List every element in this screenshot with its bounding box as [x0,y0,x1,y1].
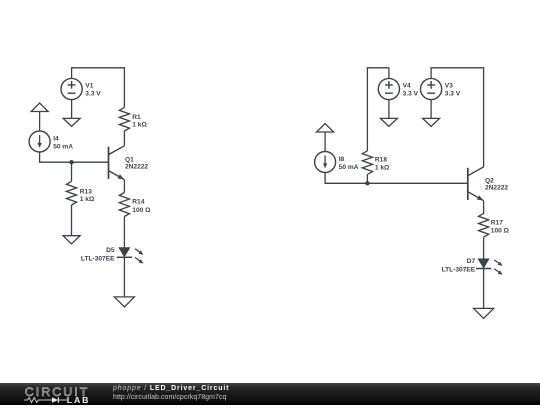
resistor R18 [362,151,372,175]
wire [366,174,368,183]
svg-text:Q1: Q1 [125,156,134,163]
node junction [69,160,73,164]
wire [71,162,73,181]
svg-text:R13: R13 [80,188,92,195]
transistor Q1 [108,147,110,179]
svg-text:LTL-307EE: LTL-307EE [81,255,115,262]
svg-text:R17: R17 [491,219,503,226]
svg-text:V4: V4 [403,83,411,90]
ground [114,297,134,307]
svg-text:3.3 V: 3.3 V [445,90,461,97]
ground [380,118,397,126]
svg-text:R1: R1 [132,114,141,121]
wire [483,201,485,214]
voltage source V4 [378,78,399,99]
svg-text:Q2: Q2 [485,178,494,185]
wire [123,131,125,146]
wire [324,132,326,152]
footer url [113,394,226,401]
svg-text:V3: V3 [445,83,453,90]
voltage source V1 [61,78,82,99]
wire [123,257,125,297]
wire [123,217,125,248]
svg-text:LTL-307EE: LTL-307EE [442,267,476,274]
svg-text:3.3 V: 3.3 V [85,90,101,97]
wire [483,237,485,259]
wire [388,100,390,119]
footer title [113,385,229,392]
ground (flipped) [31,103,48,112]
node junction [365,181,369,185]
CircuitLab logo [0,383,110,405]
svg-text:D7: D7 [467,258,476,265]
footer bar [0,383,540,405]
ground [474,308,494,318]
svg-text:I4: I4 [53,135,59,142]
LED D5 [119,248,129,257]
resistor R13 [66,181,76,205]
svg-text:I8: I8 [339,156,345,163]
svg-text:3.3 V: 3.3 V [403,90,419,97]
svg-text:2N2222: 2N2222 [485,185,508,192]
svg-text:1 kΩ: 1 kΩ [80,196,95,203]
svg-text:LAB: LAB [67,395,91,405]
ground [423,118,440,126]
wire [123,180,125,193]
svg-text:V1: V1 [85,83,93,90]
resistor R14 [119,193,129,217]
resistor R1 [119,107,129,131]
wire [71,100,73,119]
svg-text:D5: D5 [106,247,115,254]
svg-text:50 mA: 50 mA [339,164,359,171]
svg-text:2N2222: 2N2222 [125,164,148,171]
svg-text:100 Ω: 100 Ω [491,228,510,235]
ground [63,236,80,244]
svg-text:100 Ω: 100 Ω [132,207,151,214]
wire [430,100,432,119]
ground [63,118,80,126]
wire [483,269,485,309]
svg-text:R18: R18 [375,157,387,164]
wire [367,68,389,151]
LED D7 [478,259,488,268]
svg-text:1 kΩ: 1 kΩ [132,122,147,129]
transistor Q2 [467,168,469,200]
wire [39,112,41,132]
wire [325,173,468,184]
resistor R17 [479,213,489,237]
current source I8 [315,152,336,173]
svg-text:1 kΩ: 1 kΩ [375,164,390,171]
wire [40,152,109,162]
wire [71,205,73,236]
current source I4 [29,131,50,152]
wire [72,68,125,108]
ground (flipped) [317,124,334,133]
voltage source V3 [421,78,442,99]
wire [431,68,484,167]
svg-text:R14: R14 [132,199,144,206]
svg-text:50 mA: 50 mA [53,143,73,150]
